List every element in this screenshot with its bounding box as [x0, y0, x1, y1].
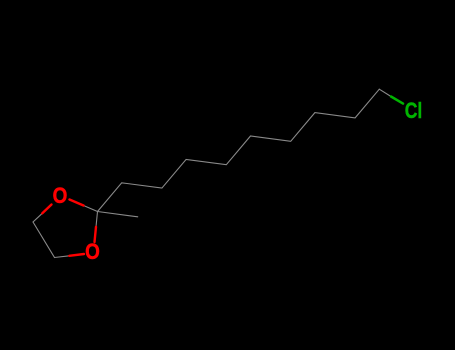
svg-text:Cl: Cl: [405, 99, 423, 123]
svg-text:O: O: [85, 240, 100, 265]
svg-text:O: O: [53, 184, 68, 209]
